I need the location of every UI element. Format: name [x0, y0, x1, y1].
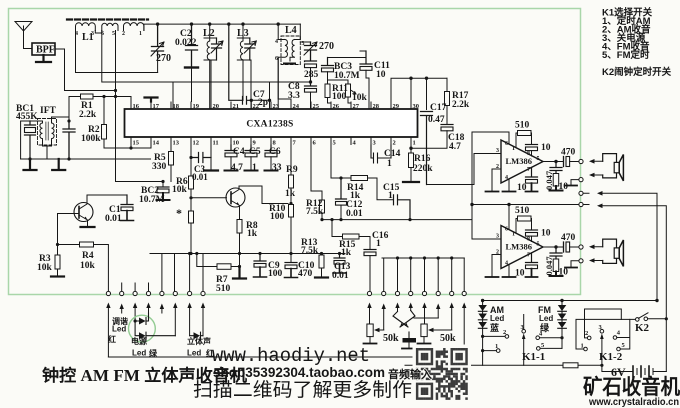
K1-2 pole with arrow: [602, 338, 633, 372]
capacitor 285: [305, 60, 317, 63]
capacitor 470 top: [563, 157, 565, 167]
LED / switch chinese labels: [108, 305, 553, 358]
svg-text:510: 510: [515, 121, 530, 131]
svg-text:电源: 电源: [131, 336, 147, 346]
svg-text:24: 24: [293, 103, 300, 110]
ground pin11: [204, 169, 218, 171]
L3 bottom to pin22 and C7 node: [250, 60, 251, 102]
svg-text:R16: R16: [414, 154, 431, 164]
resistor R3 10k: [51, 245, 64, 277]
svg-text:470: 470: [298, 269, 313, 279]
bottom power rail: [405, 364, 602, 366]
L4 left winding: [278, 24, 287, 109]
svg-text:R4: R4: [82, 251, 94, 261]
svg-text:L3: L3: [237, 28, 249, 39]
svg-text:23: 23: [273, 103, 280, 110]
svg-text:10k: 10k: [80, 261, 96, 271]
terminal mid upper: [579, 191, 583, 195]
svg-text:14: 14: [153, 140, 160, 147]
wire L4 right to 270 column: [300, 41, 310, 43]
U3 cap 10 pin1-8: [526, 229, 538, 231]
svg-text:www.crystalradio.cn: www.crystalradio.cn: [588, 396, 679, 408]
svg-text:100: 100: [270, 212, 285, 222]
L1 pin6 drop to rail y82: [102, 31, 173, 83]
svg-text:2: 2: [496, 250, 499, 256]
resistor R7 510: [217, 264, 231, 270]
pin19 wire up to C2 ground: [191, 69, 193, 102]
resistor R13 7.5k: [315, 254, 328, 278]
svg-text:27: 27: [353, 103, 360, 110]
svg-text:1k: 1k: [247, 229, 258, 239]
svg-text:1: 1: [495, 343, 498, 350]
capacitor C13 0.01: [334, 254, 345, 259]
svg-text:28: 28: [373, 103, 380, 110]
capacitor C14 1 (pin3): [371, 145, 391, 163]
U2 pin4 ground: [503, 179, 516, 192]
svg-text:0.01: 0.01: [192, 172, 208, 182]
svg-text:12: 12: [193, 140, 200, 147]
wire rail y82 to IC pin18: [172, 82, 174, 109]
transistor Q2: [226, 188, 245, 207]
svg-text:shop35392304.taobao.com: shop35392304.taobao.com: [213, 365, 385, 380]
IC pin leads bottom: [131, 137, 411, 145]
svg-text:Led: Led: [187, 349, 201, 358]
power rail between amps: [472, 204, 579, 206]
U2 zobel 0.047 + 10: [550, 162, 562, 174]
svg-text:K1-2: K1-2: [599, 351, 623, 363]
svg-text:立体声: 立体声: [187, 336, 211, 346]
svg-text:7: 7: [527, 167, 530, 173]
svg-text:50k: 50k: [440, 333, 456, 344]
svg-text:220k: 220k: [413, 164, 433, 174]
svg-text:L2: L2: [203, 28, 215, 39]
svg-text:13: 13: [173, 140, 180, 147]
svg-text:3: 3: [91, 31, 94, 37]
capacitor C2 0.022: [186, 24, 198, 66]
svg-text:蓝: 蓝: [490, 322, 499, 333]
capacitor C16 1: [364, 249, 376, 251]
cap right of IFT: [63, 121, 75, 159]
svg-text:2: 2: [585, 330, 588, 337]
bottom wire from T1: [108, 356, 437, 358]
right group drops from y258 rail: [382, 257, 464, 259]
component reference/value labels: [16, 25, 576, 294]
resistor R4 10k: [58, 244, 80, 246]
K1-1 pole with arrow: [523, 338, 525, 365]
inductor L2 with trimmer: [204, 24, 217, 109]
U3 pin2 ground: [486, 255, 502, 278]
top wire of switch section: [483, 300, 657, 302]
U2 510 feedback resistor: [516, 133, 518, 148]
svg-text:C4: C4: [233, 147, 245, 157]
svg-text:Led: Led: [490, 314, 504, 323]
crossing wiper links: [393, 311, 438, 328]
svg-text:*: *: [176, 206, 182, 220]
IFT right winding: [52, 121, 55, 142]
svg-text:5: 5: [537, 156, 540, 162]
svg-text:26: 26: [333, 103, 340, 110]
svg-text:1: 1: [413, 140, 416, 147]
pin30 to rail: [410, 78, 412, 101]
volume pot left 50k: [367, 324, 373, 337]
L4 right winding: [290, 24, 300, 61]
svg-text:0.01: 0.01: [346, 209, 363, 219]
svg-text:20: 20: [213, 103, 220, 110]
svg-text:2: 2: [496, 164, 499, 170]
ground above pin17: [145, 98, 158, 102]
svg-text:100: 100: [332, 92, 347, 102]
ground under top-out-2 terminal: [565, 180, 579, 186]
svg-text:30: 30: [413, 103, 420, 110]
svg-text:0.047: 0.047: [544, 170, 554, 190]
crystal BC2 10.7M: [157, 186, 169, 188]
svg-text:0.01: 0.01: [105, 214, 122, 224]
terminals on bottom green border (left group): [106, 291, 205, 295]
svg-text:4: 4: [75, 31, 78, 37]
svg-text:8: 8: [527, 151, 530, 157]
IFT transformer dashed box: [38, 119, 57, 146]
svg-text:Led: Led: [112, 325, 126, 334]
green circle highlight: [129, 315, 156, 342]
crystal BC3 10.7M: [322, 58, 334, 66]
svg-text:100: 100: [268, 269, 283, 279]
L1 pin1 wire to top rail: [144, 24, 158, 30]
wire BPF out to L1 tap5 column: [55, 49, 116, 91]
green frame: [9, 9, 581, 295]
IFT bottom stems: [43, 142, 52, 160]
capacitor 470 bottom: [563, 242, 565, 252]
resistor R11 100: [325, 84, 330, 98]
svg-text:455K: 455K: [16, 112, 38, 122]
capacitor C9 100: [254, 254, 266, 262]
svg-text:50k: 50k: [383, 333, 399, 344]
svg-text:285: 285: [304, 70, 319, 80]
wire R6 to Q2 base: [191, 197, 227, 199]
svg-text:4.7: 4.7: [231, 163, 243, 173]
IC pin leads top: [131, 102, 411, 110]
capacitor C17 0.47: [421, 112, 433, 185]
svg-text:10: 10: [559, 182, 569, 192]
resistor R10 100: [289, 205, 294, 218]
QR code watermark: [413, 345, 472, 403]
svg-text:绿: 绿: [149, 348, 158, 358]
node column x115.5 down left of IC: [115, 31, 117, 182]
capacitor C3 0.01 between pins 12,11: [191, 145, 211, 176]
pin5 wire to R14: [331, 145, 351, 178]
up arrows under left terminals: [108, 305, 203, 358]
speaker bottom: [603, 239, 617, 263]
svg-text:CXA1238S: CXA1238S: [246, 120, 293, 130]
resistor R15 1k: [332, 220, 343, 237]
svg-text:270: 270: [319, 41, 334, 52]
switch K1-1 contacts: [496, 329, 540, 352]
svg-text:1: 1: [388, 191, 393, 201]
svg-text:IFT: IFT: [40, 106, 57, 116]
svg-text:1: 1: [512, 146, 515, 152]
svg-text:470: 470: [561, 233, 576, 243]
node dots on top rail: [156, 22, 280, 25]
svg-text:Led: Led: [539, 314, 553, 323]
Q1 base wire: [58, 214, 80, 245]
star resistor: [189, 198, 191, 254]
L4 pin6 to pin24: [278, 57, 291, 101]
pin6 wire to R12: [311, 145, 322, 191]
BPF box: [32, 43, 55, 55]
svg-text:2.2k: 2.2k: [452, 100, 470, 110]
up arrows under right terminals: [370, 305, 465, 353]
rail y148 left (pins 15,14): [104, 137, 151, 148]
svg-text:8: 8: [527, 237, 530, 243]
270 variable cap bottom drop: [157, 57, 159, 73]
U3 pin7 cap 10: [526, 253, 538, 263]
inductor L4 dashed box: [281, 36, 300, 65]
rail y181.5 to BC2: [116, 182, 164, 187]
svg-text:510: 510: [515, 206, 530, 216]
svg-text:33: 33: [272, 163, 282, 173]
svg-text:2: 2: [503, 329, 506, 336]
svg-text:Led: Led: [132, 349, 146, 358]
inductor L1 dashed core: [67, 18, 148, 20]
U2 pin2 ground: [486, 169, 502, 192]
LED2 power: [135, 321, 175, 339]
svg-text:2: 2: [122, 31, 125, 37]
svg-text:7.5k: 7.5k: [301, 246, 319, 256]
bottom rail BC1 cluster: [21, 158, 151, 160]
svg-text:5、FM定时: 5、FM定时: [602, 49, 650, 61]
ground left: [24, 159, 37, 170]
svg-text:红: 红: [108, 334, 116, 344]
svg-text:LM386: LM386: [506, 156, 532, 166]
terminals bottom green border (right group): [367, 291, 466, 295]
variable capacitor 270 (FM): [305, 42, 317, 61]
svg-text:7.5k: 7.5k: [306, 207, 324, 217]
L2 bottom wire to pin20: [211, 60, 217, 102]
resistor R17 2.2k: [446, 78, 448, 124]
svg-text:www.haodiy.net: www.haodiy.net: [212, 345, 370, 367]
svg-text:4: 4: [275, 39, 278, 45]
resistor R2 100k: [103, 97, 105, 149]
capacitor C18 4.7: [441, 124, 453, 126]
volume pot right 50k: [421, 324, 427, 337]
capacitor C12 0.01: [336, 178, 347, 199]
svg-text:1: 1: [252, 163, 257, 173]
svg-text:100k: 100k: [81, 134, 101, 144]
resistor R9 1k (pin7): [290, 145, 292, 204]
preset pot 10k: [346, 84, 351, 97]
svg-text:10k: 10k: [172, 185, 188, 195]
svg-text:18: 18: [173, 103, 180, 110]
L4 core ground: [284, 63, 295, 65]
L1 winding b (pins 6-5): [102, 23, 118, 30]
svg-text:330: 330: [152, 162, 167, 172]
svg-text:21: 21: [233, 103, 240, 110]
svg-text:19: 19: [193, 103, 200, 110]
svg-text:K2闹钟定时开关: K2闹钟定时开关: [602, 66, 672, 78]
svg-text:17: 17: [153, 103, 160, 110]
rail y78.2 pins29-30 R17: [391, 78, 447, 109]
svg-text:L4: L4: [285, 25, 297, 36]
svg-text:3: 3: [496, 148, 499, 154]
rail y219.6: [322, 219, 472, 221]
resistor R16 220k (pin1): [410, 145, 412, 181]
K1-1 wiring: [483, 336, 562, 350]
ceramic filter BC1 455K: [25, 121, 36, 125]
resistor R1: [81, 94, 94, 99]
svg-text:10: 10: [233, 140, 240, 147]
rail y82 right part: [173, 81, 311, 83]
K1-2 contact wires: [576, 319, 636, 349]
svg-text:3.3: 3.3: [288, 91, 300, 101]
capacitor C6 33 (pin8): [265, 145, 277, 151]
FM LED stack column: [561, 301, 563, 349]
op-amp U2 LM386 top: [501, 140, 543, 183]
U3 510 feedback: [516, 219, 518, 234]
svg-text:10: 10: [517, 183, 527, 193]
capacitor C11 10: [360, 51, 372, 64]
terminal out top: [579, 159, 583, 163]
svg-text:1k: 1k: [341, 248, 352, 258]
U2 output wire: [543, 161, 563, 163]
resistor R12 7.5k: [321, 191, 323, 220]
svg-text:16: 16: [133, 103, 140, 110]
capacitor C1 0.01: [121, 195, 133, 205]
svg-text:1: 1: [139, 31, 142, 37]
U2 cap 10 pin1-8: [526, 144, 538, 146]
svg-text:6: 6: [505, 227, 508, 233]
svg-text:C5: C5: [249, 147, 261, 157]
wire C17 column to top amp input: [427, 154, 502, 185]
bottom speaker arrows: [593, 247, 603, 261]
svg-text:10.7M: 10.7M: [139, 195, 165, 205]
svg-text:10: 10: [515, 269, 525, 279]
svg-text:4: 4: [505, 175, 508, 181]
svg-text:6: 6: [275, 56, 278, 62]
svg-text:10.7M: 10.7M: [334, 71, 360, 81]
resistor R14 1k: [351, 176, 368, 181]
svg-text:音频输入: 音频输入: [388, 367, 432, 381]
capacitor C5 1 (pin9): [245, 145, 257, 151]
svg-text:3: 3: [302, 41, 305, 47]
svg-text:1: 1: [512, 232, 515, 238]
R1 wire: [69, 97, 131, 110]
svg-text:1: 1: [581, 343, 584, 350]
switch K1-2 contacts: [584, 329, 621, 350]
IFT top wires: [21, 117, 69, 159]
svg-text:5: 5: [537, 242, 540, 248]
svg-text:470: 470: [561, 148, 576, 158]
svg-text:0.47: 0.47: [428, 115, 445, 125]
svg-text:3: 3: [496, 234, 499, 240]
svg-text:10k: 10k: [352, 93, 368, 103]
L1 winding c (pins 2-1): [124, 23, 144, 31]
svg-text:BPF: BPF: [36, 45, 55, 56]
svg-text:29: 29: [393, 103, 400, 110]
svg-text:LM386: LM386: [506, 242, 532, 252]
rail y253.5: [150, 253, 345, 255]
transistor Q1: [74, 203, 93, 222]
mid wires to right bus: [583, 193, 657, 300]
svg-text:1: 1: [376, 239, 381, 249]
svg-text:10: 10: [541, 229, 551, 239]
wire BC3/C11 top rail: [311, 57, 367, 59]
resistor R6 10k: [189, 176, 194, 189]
svg-text:1: 1: [387, 159, 392, 169]
svg-text:1k: 1k: [285, 189, 296, 199]
antenna: [15, 22, 32, 49]
U2 pin6 supply wire: [472, 132, 509, 220]
U3 pin4 ground: [503, 264, 516, 277]
svg-text:C6: C6: [269, 147, 281, 157]
svg-text:扫描二维码了解更多制作: 扫描二维码了解更多制作: [193, 379, 412, 401]
svg-text:510: 510: [216, 284, 231, 294]
svg-text:10: 10: [559, 268, 569, 278]
series resistor on rail: [563, 363, 578, 368]
U2 pin7 cap 10: [526, 168, 538, 178]
IC U1 CXA1238S: [125, 109, 418, 137]
svg-text:7: 7: [527, 253, 530, 259]
svg-text:2.2k: 2.2k: [79, 110, 97, 120]
svg-text:4.7: 4.7: [449, 142, 461, 152]
U3 zobel: [550, 247, 562, 259]
svg-text:25: 25: [313, 103, 320, 110]
svg-text:K2: K2: [635, 322, 650, 334]
black connector block: [403, 338, 417, 343]
ground under bottom gnd terminal: [565, 261, 579, 268]
inductor L3 with trimmer: [237, 24, 250, 100]
svg-text:0.047: 0.047: [544, 256, 554, 276]
svg-text:10: 10: [376, 70, 386, 80]
svg-text:C17: C17: [430, 103, 447, 113]
top-right K1 switch legend text: [602, 7, 672, 79]
top rail: [158, 23, 301, 25]
U3 output: [543, 246, 563, 248]
LED1 tuning: [135, 313, 148, 325]
terminal mid lower / bottom out / bottom gnd: [579, 259, 583, 263]
svg-text:15: 15: [133, 140, 140, 147]
capacitor C8 3.3: [305, 82, 317, 86]
terminal drops left group: [122, 254, 203, 292]
IFT core lines: [46, 122, 48, 140]
svg-text:0.01: 0.01: [332, 271, 349, 281]
L1 pin4 drop to rail y72.5: [76, 31, 158, 73]
variable capacitor 270 (AM tuning): [152, 24, 164, 57]
svg-text:6: 6: [505, 141, 508, 147]
AM LED stack column: [482, 301, 484, 366]
battery 6V cells: [633, 366, 649, 377]
svg-text:R9: R9: [286, 165, 298, 175]
resistor R5 330 (pin13): [170, 137, 172, 182]
node dot: [67, 119, 70, 122]
capacitor C7 2p: [229, 24, 252, 104]
op-amp U3 LM386 bottom: [501, 226, 543, 269]
wire IFT out up to R1: [68, 97, 70, 122]
ground under R8: [233, 267, 246, 279]
svg-text:6: 6: [101, 31, 104, 37]
svg-text:11: 11: [213, 140, 219, 147]
LED3 stereo: [190, 332, 203, 339]
speaker top: [603, 154, 617, 178]
svg-text:K1-1: K1-1: [522, 351, 545, 363]
top speaker arrows: [593, 161, 603, 175]
capacitor C4 4.7 (pin10): [225, 145, 237, 151]
U3 pin6 supply: [508, 205, 510, 230]
svg-text:C14: C14: [384, 149, 401, 159]
svg-text:2p: 2p: [258, 98, 268, 108]
svg-text:10: 10: [541, 143, 551, 153]
U3 input wire from stereo rail: [472, 220, 501, 239]
svg-text:4: 4: [505, 261, 508, 267]
resistor R8 1k: [237, 220, 242, 234]
